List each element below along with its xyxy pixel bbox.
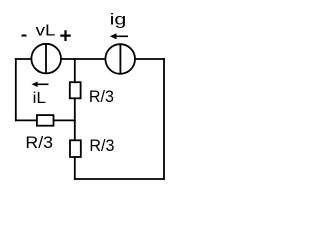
wire bottom (74, 178, 165, 180)
svg-text:ig: ig (110, 11, 127, 28)
svg-text:vL: vL (36, 23, 56, 40)
arrow for ig current direction (115, 35, 128, 37)
arrow for iL current direction (37, 83, 49, 85)
wire right rail (163, 58, 165, 180)
source ig (circle with vertical bar) (105, 44, 135, 74)
svg-text:R/3: R/3 (89, 136, 114, 155)
svg-text:R/3: R/3 (25, 133, 53, 152)
resistor R2 (vertical top, R/3) (70, 82, 81, 98)
wire left rail (15, 58, 17, 121)
source vL (circle with vertical bar) (31, 44, 61, 74)
resistor R3 (vertical bottom, R/3) (70, 140, 81, 157)
label plus sign of vL (60, 30, 70, 41)
wire middle rail bottom segment (74, 157, 76, 180)
wire left to resistor R1 (15, 119, 37, 121)
label minus sign of vL (22, 35, 27, 37)
wire right lead of ig source (135, 58, 165, 60)
wire resistor R1 to middle rail (54, 119, 76, 121)
wire middle rail top segment (74, 58, 76, 82)
svg-text:R/3: R/3 (89, 87, 114, 106)
wire top between sources (62, 58, 105, 60)
wire middle rail between R2 and R3 (74, 99, 76, 141)
resistor R1 (horizontal, R/3) (37, 115, 54, 126)
svg-text:iL: iL (33, 90, 47, 107)
wire left lead of vL source (15, 58, 31, 60)
